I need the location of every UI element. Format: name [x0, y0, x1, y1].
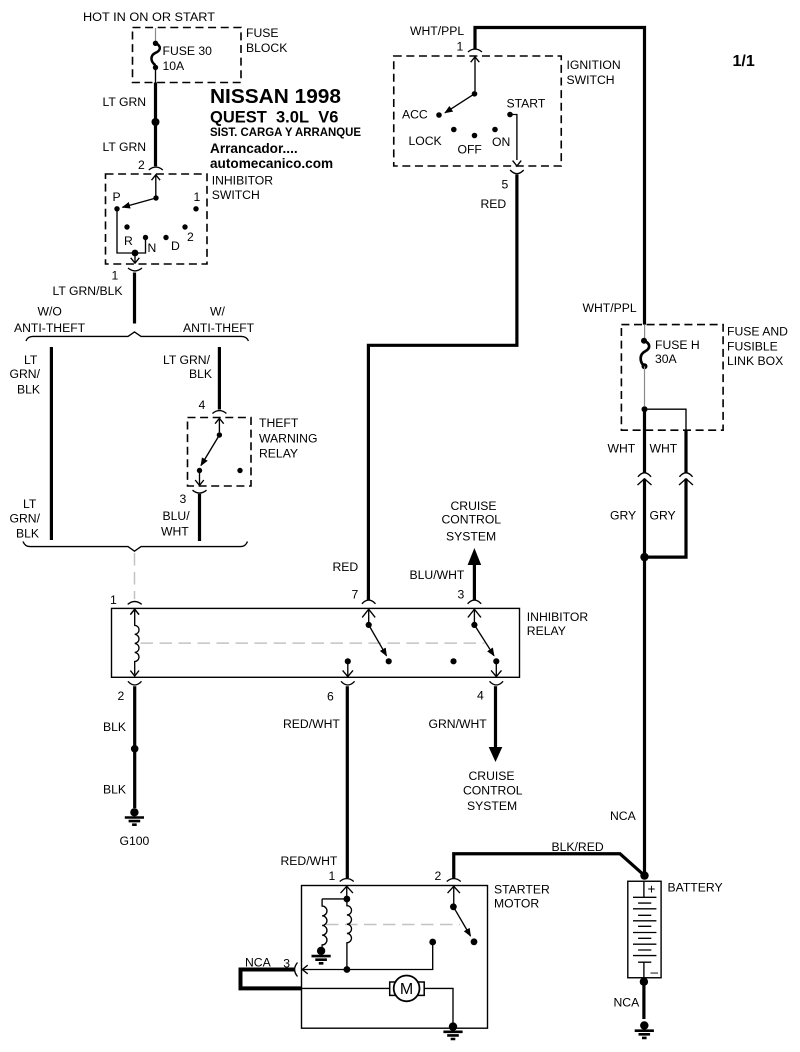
- wire GRN/WHT cruise arrow: [494, 686, 497, 747]
- relay arm 7: [369, 625, 387, 656]
- svg-text:FUSE 30: FUSE 30: [163, 44, 213, 58]
- contact LOCK: [451, 127, 457, 133]
- dashed drop wire: [134, 553, 136, 599]
- svg-text:2: 2: [118, 689, 125, 703]
- pin 4 wire: [495, 661, 497, 675]
- wire RED: [368, 175, 517, 601]
- pin 2 wire: [453, 887, 455, 905]
- svg-text:LT GRN/: LT GRN/: [163, 353, 211, 367]
- contact dot pin 4: [493, 658, 499, 664]
- svg-text:INHIBITOR: INHIBITOR: [527, 610, 589, 624]
- contact dot: [197, 468, 202, 473]
- svg-text:2: 2: [435, 869, 442, 883]
- svg-text:4: 4: [477, 689, 484, 703]
- spare contact dot: [450, 658, 456, 664]
- fuse F30 symbol: [153, 41, 158, 46]
- svg-text:4: 4: [199, 398, 206, 412]
- svg-text:W/: W/: [210, 305, 226, 319]
- wire below fuse: [644, 366, 646, 406]
- svg-text:1: 1: [112, 269, 119, 283]
- svg-text:SYSTEM: SYSTEM: [467, 799, 517, 813]
- battery internals: [643, 881, 645, 978]
- svg-text:automecanico.com: automecanico.com: [210, 156, 333, 171]
- arm to ACC: [445, 94, 475, 113]
- junction battery minus: [640, 978, 648, 986]
- common wire: [474, 57, 476, 91]
- contact R: [124, 224, 129, 229]
- svg-text:WHT/PPL: WHT/PPL: [583, 301, 637, 315]
- fuse and fusible link dashed box: [621, 325, 723, 431]
- connector pin 3 inhibitor relay: [468, 600, 482, 604]
- wire BLK to G100: [133, 686, 136, 808]
- svg-text:R: R: [124, 234, 133, 248]
- svg-text:LOCK: LOCK: [409, 134, 442, 148]
- relay internal dashed link: [141, 642, 485, 644]
- connector pin 5 ignition switch: [510, 170, 524, 174]
- relay arm 3: [474, 625, 494, 656]
- svg-text:INHIBITOR: INHIBITOR: [212, 174, 274, 188]
- svg-text:–: –: [651, 965, 659, 980]
- contact N: [143, 235, 148, 240]
- spare contact dot: [237, 468, 242, 473]
- svg-text:Arrancador....: Arrancador....: [210, 141, 298, 156]
- svg-text:BLK: BLK: [103, 720, 126, 734]
- contact OFF: [472, 133, 478, 139]
- svg-text:1: 1: [110, 593, 117, 607]
- wire WHT right: [684, 430, 687, 472]
- svg-text:GRN/: GRN/: [10, 512, 41, 526]
- connector pin 7 inhibitor relay: [362, 600, 376, 604]
- svg-text:OFF: OFF: [458, 143, 482, 157]
- wire pin 3 internal: [302, 942, 432, 970]
- inhibitor switch dashed box: [106, 174, 208, 264]
- svg-text:M: M: [400, 981, 413, 998]
- starter switch arm: [453, 907, 470, 936]
- connector pin 3 starter: [295, 963, 308, 977]
- connector pin 4 inhibitor relay: [490, 681, 504, 685]
- junction coil 2: [344, 966, 351, 973]
- wire into fuse: [155, 28, 157, 41]
- svg-text:6: 6: [327, 690, 334, 704]
- connector pin 3 theft warning relay: [193, 480, 207, 493]
- svg-text:CRUISE: CRUISE: [469, 769, 515, 783]
- junction pin 1: [344, 896, 351, 903]
- battery box: [628, 881, 661, 978]
- svg-text:ANTI-THEFT: ANTI-THEFT: [14, 321, 86, 335]
- svg-text:BLU/WHT: BLU/WHT: [410, 568, 465, 582]
- svg-text:LT: LT: [23, 497, 37, 511]
- ignition switch dashed box: [394, 56, 562, 166]
- switch common wire: [155, 175, 157, 196]
- inline connector left: [638, 473, 652, 485]
- svg-text:LT GRN: LT GRN: [103, 95, 147, 109]
- switch arm to P: [123, 198, 157, 207]
- svg-text:3: 3: [458, 588, 465, 602]
- svg-text:HOT IN ON OR START: HOT IN ON OR START: [83, 10, 216, 24]
- contact START: [507, 112, 513, 118]
- pivot dot: [472, 91, 478, 97]
- svg-text:WHT: WHT: [608, 442, 636, 456]
- theft warning relay dashed box: [188, 418, 252, 487]
- junction: [642, 406, 648, 412]
- svg-text:SYSTEM: SYSTEM: [446, 530, 496, 544]
- contact 1: [193, 206, 198, 211]
- svg-text:WHT/PPL: WHT/PPL: [410, 24, 464, 38]
- wire RED/WHT: [346, 686, 349, 878]
- svg-text:+: +: [648, 882, 656, 897]
- svg-text:RED: RED: [481, 197, 507, 211]
- contact ACC: [436, 112, 442, 118]
- wire NCA to ground: [642, 982, 645, 1019]
- svg-text:WHT: WHT: [161, 525, 189, 539]
- contact dot: [386, 658, 392, 664]
- wire NCA loop: [241, 970, 302, 989]
- svg-text:BLOCK: BLOCK: [246, 41, 287, 55]
- ground coil 1: [312, 947, 331, 964]
- svg-text:D: D: [171, 239, 180, 253]
- contact D: [163, 235, 168, 240]
- wire to coil 1: [322, 898, 347, 900]
- svg-text:NCA: NCA: [614, 996, 641, 1010]
- svg-text:ACC: ACC: [402, 108, 428, 122]
- svg-text:MOTOR: MOTOR: [494, 897, 539, 911]
- svg-text:30A: 30A: [655, 352, 678, 366]
- wire WHT/PPL top: [475, 28, 645, 325]
- svg-text:GRN/WHT: GRN/WHT: [429, 717, 488, 731]
- svg-text:7: 7: [352, 588, 359, 602]
- wire into fuse H: [644, 325, 646, 338]
- svg-text:NISSAN 1998: NISSAN 1998: [210, 85, 341, 108]
- connector pin 1 inhibitor relay: [128, 602, 142, 615]
- svg-text:BLK/RED: BLK/RED: [552, 840, 604, 854]
- contact P: [114, 206, 119, 211]
- ground G100: [125, 808, 144, 825]
- wire to pin 3: [199, 471, 201, 486]
- svg-text:RED/WHT: RED/WHT: [283, 717, 340, 731]
- svg-text:RED/WHT: RED/WHT: [281, 854, 338, 868]
- junction switch contact: [429, 939, 436, 946]
- contact dot: [471, 938, 478, 945]
- svg-text:CRUISE: CRUISE: [451, 499, 497, 513]
- wire w/ anti-theft LT GRN/BLK: [218, 347, 221, 410]
- wire START to pin 5: [510, 115, 517, 161]
- svg-text:GRN/: GRN/: [10, 367, 41, 381]
- coil 2: [347, 899, 352, 970]
- connector pin 2 starter: [447, 879, 461, 894]
- connector pin 1 inhibitor switch: [128, 258, 142, 271]
- svg-text:GRY: GRY: [650, 509, 676, 523]
- coil 1: [322, 899, 327, 947]
- brace top: [26, 332, 249, 341]
- svg-text:SWITCH: SWITCH: [212, 188, 260, 202]
- svg-text:BLK: BLK: [103, 783, 126, 797]
- junction at battery: [640, 871, 648, 879]
- wire LT GRN: [155, 68, 157, 83]
- connector pin 1 starter: [340, 879, 354, 894]
- svg-text:2: 2: [187, 230, 194, 244]
- coil arrow top: [130, 609, 139, 614]
- svg-text:G100: G100: [120, 834, 150, 848]
- svg-text:GRY: GRY: [610, 509, 636, 523]
- wire GRY left: [643, 479, 646, 876]
- svg-text:LT: LT: [24, 353, 38, 367]
- wire w/o anti-theft LT GRN/BLK: [50, 347, 53, 540]
- connector pin 2 inhibitor relay: [128, 681, 142, 685]
- svg-text:ON: ON: [492, 135, 510, 149]
- starter motor box: [302, 886, 488, 1029]
- svg-text:LT GRN: LT GRN: [103, 140, 147, 154]
- svg-text:FUSE: FUSE: [246, 26, 279, 40]
- connector pin 2 inhibitor switch: [149, 167, 163, 180]
- svg-text:IGNITION: IGNITION: [567, 58, 621, 72]
- svg-text:SIST. CARGA Y ARRANQUE: SIST. CARGA Y ARRANQUE: [210, 125, 361, 139]
- svg-text:SWITCH: SWITCH: [567, 73, 615, 87]
- connector pin 6 inhibitor relay: [341, 681, 355, 685]
- pin 3 wire and pivot: [473, 609, 475, 622]
- svg-text:BLK: BLK: [17, 383, 40, 397]
- svg-text:1: 1: [194, 190, 201, 204]
- coil arrow bottom: [130, 671, 139, 676]
- fuse block dashed box: [133, 28, 242, 83]
- svg-text:BATTERY: BATTERY: [668, 881, 723, 895]
- pivot dot: [217, 432, 222, 437]
- svg-text:N: N: [148, 241, 157, 255]
- motor feed wire: [302, 988, 454, 1023]
- svg-text:W/O: W/O: [38, 305, 62, 319]
- branch wire in box: [645, 409, 687, 430]
- wire GRY right: [648, 479, 686, 557]
- wire BLK/RED: [454, 854, 645, 878]
- pivot dot pin 2: [450, 903, 457, 910]
- wire BLU/WHT: [198, 494, 201, 541]
- svg-text:10A: 10A: [163, 59, 186, 73]
- junction: [640, 553, 648, 561]
- svg-text:3: 3: [180, 492, 187, 506]
- svg-text:P: P: [113, 190, 121, 204]
- junction: [152, 118, 160, 126]
- wire LT GRN/BLK: [133, 273, 136, 324]
- switch pivot dot: [153, 195, 158, 200]
- svg-text:QUEST 3.0L V6: QUEST 3.0L V6: [210, 109, 338, 127]
- svg-text:1: 1: [457, 40, 464, 54]
- svg-text:FUSE H: FUSE H: [655, 338, 700, 352]
- junction: [132, 250, 139, 257]
- relay contact wire: [218, 419, 220, 433]
- motor M: [390, 982, 425, 995]
- contact ON: [492, 127, 498, 133]
- ground starter: [443, 1022, 462, 1039]
- pin 6 contact dot: [345, 658, 351, 664]
- svg-text:LT GRN/BLK: LT GRN/BLK: [53, 284, 123, 298]
- wire WHT left: [643, 409, 646, 472]
- brace bottom: [23, 542, 248, 552]
- svg-text:STARTER: STARTER: [494, 883, 550, 897]
- relay arm: [201, 435, 219, 466]
- svg-text:FUSIBLE: FUSIBLE: [727, 340, 778, 354]
- wire BLU/WHT cruise arrow: [473, 564, 476, 600]
- svg-text:FUSE AND: FUSE AND: [727, 325, 788, 339]
- wire P to N: [117, 209, 146, 253]
- inhibitor relay box: [112, 608, 520, 677]
- svg-text:NCA: NCA: [245, 956, 272, 970]
- pin 6 wire: [347, 661, 349, 675]
- svg-text:BLK: BLK: [189, 367, 212, 381]
- pin 7 wire and pivot: [368, 609, 370, 622]
- svg-text:1: 1: [329, 869, 336, 883]
- svg-text:THEFT: THEFT: [259, 416, 299, 430]
- coil: [135, 609, 139, 674]
- svg-text:RED: RED: [333, 560, 359, 574]
- fuse H symbol: [641, 338, 647, 344]
- pin 1 wire: [346, 887, 348, 897]
- svg-text:RELAY: RELAY: [527, 624, 566, 638]
- svg-text:CONTROL: CONTROL: [463, 784, 523, 798]
- svg-text:LINK BOX: LINK BOX: [727, 354, 783, 368]
- svg-text:BLK: BLK: [16, 527, 39, 541]
- svg-text:2: 2: [138, 158, 145, 172]
- inline connector right: [679, 473, 693, 485]
- svg-text:NCA: NCA: [610, 809, 637, 823]
- svg-text:WARNING: WARNING: [259, 432, 317, 446]
- connector pin 1 ignition switch: [468, 49, 482, 62]
- svg-text:BLU/: BLU/: [163, 509, 191, 523]
- svg-text:5: 5: [502, 178, 509, 192]
- starter internal dashed link: [326, 924, 460, 926]
- svg-text:WHT: WHT: [650, 442, 678, 456]
- svg-text:CONTROL: CONTROL: [442, 513, 502, 527]
- svg-text:1/1: 1/1: [733, 53, 755, 70]
- contact 2: [182, 224, 187, 229]
- ground battery: [635, 1021, 654, 1038]
- connector pin 4 theft warning relay: [212, 411, 226, 424]
- wire to pin 1: [134, 253, 136, 263]
- svg-text:ANTI-THEFT: ANTI-THEFT: [183, 321, 255, 335]
- svg-text:START: START: [507, 97, 546, 111]
- svg-text:RELAY: RELAY: [259, 447, 298, 461]
